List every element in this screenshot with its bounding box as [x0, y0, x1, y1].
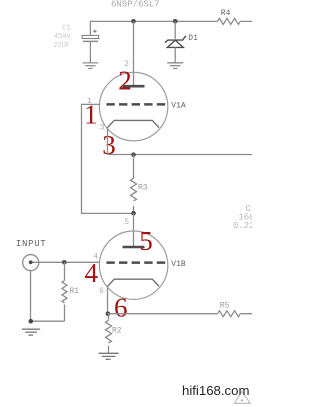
- capacitor C1: [82, 30, 99, 42]
- node R3 bottom / V1B anode: [131, 211, 136, 216]
- wire D1 bottom lead: [174, 47, 176, 62]
- svg-text:C1: C1: [62, 25, 70, 33]
- watermark triangle: [234, 391, 250, 403]
- svg-text:R2: R2: [112, 326, 122, 335]
- ground (D1): [167, 63, 183, 69]
- node V1B cathode / R2 top: [106, 311, 111, 316]
- resistor R5: [218, 311, 241, 317]
- triode V1A envelope: [99, 72, 167, 140]
- svg-text:5: 5: [139, 226, 153, 256]
- resistor R3: [131, 155, 137, 214]
- zener diode D1: [165, 36, 186, 48]
- svg-text:0.22: 0.22: [233, 221, 252, 231]
- svg-text:2: 2: [118, 66, 132, 96]
- wire V1B cathode lead down: [107, 286, 109, 313]
- wire V1A anode lead: [133, 21, 135, 85]
- svg-text:5: 5: [124, 218, 129, 227]
- svg-text:R4: R4: [221, 9, 231, 18]
- svg-text:R5: R5: [220, 301, 230, 310]
- ground (R2): [99, 353, 119, 359]
- wire jack to V1B grid: [31, 261, 100, 263]
- wire cathode to R5 and right edge: [108, 313, 253, 315]
- wire cathode bus to right edge: [108, 154, 253, 156]
- V1A plate: [123, 85, 145, 88]
- svg-text:hifi168.com: hifi168.com: [182, 383, 249, 398]
- svg-text:V1B: V1B: [171, 260, 186, 269]
- wire jack bottom lead down: [30, 271, 32, 322]
- input jack: [23, 255, 39, 271]
- V1B cathode: [108, 279, 160, 286]
- svg-text:22UF: 22UF: [53, 42, 70, 50]
- svg-text:6: 6: [99, 287, 104, 296]
- wire V1A grid lead to left and down to V1B anode node: [82, 104, 134, 213]
- ground (C1): [82, 63, 98, 69]
- resistor R1: [62, 262, 67, 321]
- resistor R2: [106, 314, 112, 354]
- wire V1B anode lead: [133, 213, 135, 246]
- ground (input): [22, 329, 40, 335]
- wire top bus: [90, 20, 252, 22]
- svg-text:INPUT: INPUT: [16, 239, 47, 249]
- wire V1A cathode lead down: [107, 128, 109, 155]
- svg-text:450V: 450V: [54, 33, 72, 41]
- wire C1 top lead: [89, 21, 91, 35]
- svg-text:6N9P/6SL7: 6N9P/6SL7: [111, 0, 160, 10]
- wire D1 top lead: [174, 21, 176, 38]
- svg-text:D1: D1: [188, 34, 198, 43]
- node top bus / D1: [173, 19, 178, 24]
- node R1 top: [62, 260, 67, 265]
- node ground junction: [29, 319, 34, 324]
- V1A grid (dashed): [106, 103, 165, 106]
- svg-text:V1A: V1A: [171, 102, 186, 111]
- wire R1 bottom to jack lead: [31, 320, 65, 322]
- svg-text:3: 3: [102, 130, 116, 160]
- wire C1 bottom lead: [89, 41, 91, 62]
- V1B grid (dashed): [106, 261, 165, 264]
- svg-text:6: 6: [114, 293, 128, 323]
- triode V1B envelope: [99, 231, 167, 299]
- node top bus / V1A anode: [131, 19, 136, 24]
- resistor R4: [218, 18, 241, 24]
- node V1A cathode / R3 top: [131, 152, 136, 157]
- V1B plate: [123, 246, 145, 249]
- V1A cathode: [108, 120, 160, 127]
- svg-text:R3: R3: [138, 184, 148, 193]
- svg-text:R1: R1: [70, 287, 80, 296]
